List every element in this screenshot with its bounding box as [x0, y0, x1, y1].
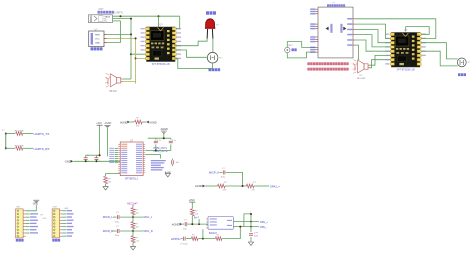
wire U4 notch loop — [406, 27, 430, 35]
wire — [198, 238, 215, 240]
svg-text:10k: 10k — [136, 227, 139, 229]
wire U3.r4 to U4 pad4 — [356, 35, 391, 47]
svg-text:CN?: CN? — [16, 206, 21, 208]
speaker SP3 — [457, 58, 466, 67]
svg-text:C? 104u: C? 104u — [180, 243, 188, 245]
junction — [242, 185, 244, 187]
svg-text:M?: M? — [219, 58, 223, 60]
wire — [132, 215, 134, 222]
svg-text:104: 104 — [176, 162, 180, 164]
resistor R7 — [131, 236, 135, 243]
wire mic bottom to U3 — [287, 52, 315, 58]
resistor R11 — [191, 237, 198, 241]
wire CN2 pin 5 — [26, 222, 30, 224]
svg-text:MIC2x#?: MIC2x#? — [127, 201, 138, 205]
wire — [250, 237, 252, 242]
CN2 label below — [16, 239, 18, 242]
comment text line 2 — [307, 68, 309, 71]
capacitor C11 — [184, 237, 186, 241]
resistor R9 — [246, 184, 254, 188]
net label CN3 pin 9 — [67, 235, 73, 236]
net label CN3 pin 6 — [67, 226, 74, 227]
cap C1 leads — [85, 155, 87, 161]
wire — [226, 172, 243, 186]
svg-text:MIC1_R: MIC1_R — [144, 230, 153, 233]
wire CN3 pin 5 — [62, 222, 66, 224]
wire — [105, 184, 107, 186]
svg-text:C?: C? — [184, 220, 187, 222]
capacitor C9 — [185, 222, 187, 226]
resistor R12 — [215, 237, 222, 241]
svg-text:AGND: AGND — [195, 184, 203, 188]
net label CN2 pin 4 — [30, 220, 38, 221]
svg-text:AGND: AGND — [149, 121, 156, 124]
svg-text:AGND: AGND — [161, 128, 168, 131]
ground AGND — [130, 247, 135, 250]
svg-text:XPT-BT5036-LJB: XPT-BT5036-LJB — [397, 70, 415, 72]
op-amp U6 body — [208, 217, 233, 230]
net label CN2 pin 8 — [30, 232, 38, 233]
net label CN3 pin 1 — [67, 210, 73, 211]
capacitor C8 — [223, 170, 225, 174]
wire U5 bottom left — [106, 174, 121, 176]
wires right of U5 — [145, 150, 166, 154]
speaker SP1 — [110, 74, 116, 87]
capacitor C10 — [249, 234, 253, 236]
wire CN3 pin 8 — [62, 232, 66, 234]
svg-text:MIC1_L: MIC1_L — [144, 216, 153, 219]
motor label — [209, 68, 212, 71]
U4 right pin labels — [422, 34, 426, 35]
label below U2 — [91, 47, 94, 50]
capacitor C1 — [84, 158, 88, 160]
wire — [132, 205, 134, 207]
svg-text:C?: C? — [222, 168, 225, 170]
wire U3.r2 to U4 pad2 — [356, 24, 391, 38]
wire — [198, 219, 200, 224]
svg-text:GND: GND — [65, 160, 71, 164]
wire U3.r1 loop over U4 — [356, 19, 436, 39]
wire U4 pad r3 to SP3 — [421, 43, 458, 59]
wire — [130, 121, 134, 123]
label: bluetooth serial module title — [98, 11, 100, 14]
wire to U1 right pad 1 — [174, 16, 180, 29]
svg-text:4.7k: 4.7k — [43, 218, 47, 220]
wire PEN — [107, 33, 132, 35]
wire CN3 pin 2 — [62, 213, 66, 215]
wire — [155, 146, 157, 150]
net label CN3 pin 2 — [67, 213, 74, 214]
wire CN3 pin 1 — [62, 210, 66, 212]
wire — [202, 229, 204, 238]
wire — [205, 185, 217, 187]
junction — [132, 216, 134, 218]
U1 right pin labels — [177, 28, 181, 29]
U4 pads right — [417, 33, 421, 36]
resistor R5 — [131, 208, 135, 215]
wire CN2 pin 3 — [26, 216, 30, 218]
ground AGND — [103, 187, 108, 190]
cap C5 leads — [172, 159, 174, 167]
wire — [148, 137, 171, 139]
resistor R4 — [104, 176, 108, 184]
wire U3.r3 to U4 pad3 — [356, 30, 391, 43]
wire — [113, 230, 117, 232]
svg-text:104u: 104u — [115, 221, 119, 223]
wire — [182, 238, 183, 240]
wire — [188, 223, 208, 225]
svg-text:2.2k: 2.2k — [136, 241, 140, 243]
wire — [6, 133, 15, 135]
svg-text:4.7u: 4.7u — [172, 140, 176, 142]
wire to U1 left pad7 — [131, 53, 148, 55]
cap leads — [156, 138, 171, 146]
svg-text:8R 0.5W: 8R 0.5W — [357, 78, 366, 80]
svg-text:+3V3: +3V3 — [64, 208, 70, 210]
wire — [166, 146, 171, 150]
wire — [222, 227, 240, 239]
svg-text:10k: 10k — [136, 126, 139, 128]
svg-text:R?: R? — [224, 182, 227, 184]
wire — [113, 20, 121, 22]
wire CN3 pin 3 — [62, 216, 66, 218]
svg-text:GND: GND — [33, 203, 39, 206]
wire U3.r6 to SP2 top — [356, 45, 359, 60]
U5 left outside labels + stubs — [115, 147, 118, 149]
svg-text:C?: C? — [116, 226, 119, 228]
wire — [23, 147, 33, 149]
svg-text:MK?: MK? — [288, 45, 293, 47]
CN3 label below — [52, 239, 54, 242]
wire CN2 pin 8 — [26, 232, 30, 234]
junction — [130, 53, 132, 55]
wire CN2 pin 6 — [26, 226, 30, 228]
wire to U1 left pad8 — [136, 57, 149, 59]
svg-text:R?: R? — [217, 24, 221, 26]
wire riser2 olive — [135, 38, 137, 81]
LED D1 body — [206, 19, 215, 28]
svg-text:C?: C? — [116, 212, 119, 214]
wire — [160, 155, 162, 159]
wire out+ — [233, 221, 251, 223]
svg-text:OPA_+: OPA_+ — [260, 221, 268, 224]
wire motor bottom to U1 pad8 — [174, 58, 213, 68]
wire GND — [107, 21, 121, 43]
wire SP2 + to U4 pad7 — [370, 55, 391, 65]
wire CN3 pin 4 — [62, 219, 66, 221]
wire — [99, 125, 101, 156]
LED legs — [207, 29, 213, 39]
svg-text:R?: R? — [253, 182, 256, 184]
svg-text:4.7u: 4.7u — [157, 140, 161, 142]
U3 inner arrows — [326, 27, 329, 31]
wire U3.r5 to U4 pad5 — [356, 40, 391, 51]
capacitor C7 — [117, 229, 119, 233]
svg-text:XPT8871LJ: XPT8871LJ — [125, 177, 139, 180]
resistor R8 — [218, 184, 226, 188]
U5 inner pin names — [121, 144, 127, 145]
svg-text:10k: 10k — [195, 214, 198, 216]
wire — [132, 229, 134, 236]
wire CN3 pin 7 — [62, 229, 66, 231]
junction — [132, 230, 134, 232]
wire CN2 pin 7 — [26, 229, 30, 231]
svg-text:MICP_A: MICP_A — [209, 171, 219, 175]
wire GND rail — [73, 160, 120, 162]
wire — [106, 128, 108, 156]
svg-text:R?: R? — [41, 215, 44, 217]
wire — [250, 214, 252, 232]
svg-text:UART0_RX: UART0_RX — [34, 147, 50, 151]
wire SP1 + — [122, 78, 131, 80]
wire CN2 pin 4 — [26, 219, 30, 221]
svg-text:R?: R? — [192, 234, 195, 236]
wire — [120, 216, 143, 218]
svg-text:AGND: AGND — [105, 122, 112, 125]
U4 inner pads column — [412, 36, 415, 38]
blue net text block right of U5 — [151, 160, 166, 161]
U1 pads left — [146, 27, 150, 30]
junction — [239, 226, 241, 228]
U1 inner chip — [151, 31, 165, 41]
wire — [182, 223, 184, 225]
wire — [220, 171, 223, 173]
svg-text:223: 223 — [254, 236, 258, 238]
svg-text:+3V0: +3V0 — [189, 199, 196, 202]
junction — [135, 57, 137, 59]
U5 pin stubs — [118, 143, 145, 145]
wire — [191, 202, 193, 209]
U3 right pin stubs — [353, 18, 356, 20]
motor M1 — [207, 52, 218, 63]
svg-text:104u: 104u — [115, 235, 119, 237]
U4 left pin labels — [385, 34, 389, 35]
wire loop — [244, 214, 251, 227]
wire — [120, 230, 143, 232]
IC module U1 body — [147, 27, 176, 62]
U3 title — [327, 4, 329, 6]
svg-text:R?: R? — [217, 234, 220, 236]
svg-text:CN?: CN? — [99, 8, 104, 11]
svg-text:YD?: YD? — [358, 75, 363, 77]
wire — [142, 121, 146, 123]
net label CN2 pin 6 — [30, 226, 38, 227]
wire left bus — [5, 134, 7, 149]
svg-text:R?: R? — [136, 238, 139, 240]
svg-text:VCC: VCC — [95, 38, 100, 40]
svg-text:OPA_-: OPA_- — [260, 226, 267, 229]
U1 left pin labels — [141, 28, 145, 29]
resistor R2 — [16, 146, 23, 150]
wire — [6, 147, 15, 149]
junction — [120, 15, 122, 17]
wire VCC (olive) — [107, 37, 136, 39]
svg-text:U?: U? — [404, 29, 408, 32]
wire riser1 — [130, 19, 132, 79]
wire motor left to U1 pad6 — [174, 50, 207, 57]
wire mic top to U3 — [287, 42, 315, 48]
wire U4 pad r5 to SP3 — [421, 51, 458, 66]
svg-text:U?: U? — [160, 24, 164, 27]
svg-text:1M: 1M — [108, 182, 111, 184]
IC module U4 body — [391, 33, 420, 68]
svg-text:47k: 47k — [252, 190, 255, 192]
U3 right pin labels — [347, 18, 352, 19]
wire — [132, 243, 134, 247]
wire SP1 - — [122, 82, 135, 84]
junction — [202, 238, 204, 240]
svg-text:U?: U? — [333, 2, 337, 4]
svg-text:UART0_TX: UART0_TX — [34, 132, 50, 136]
svg-text:R?: R? — [136, 210, 139, 212]
U3 left pin labels — [310, 8, 315, 9]
wire CN3 pin 9 — [62, 235, 66, 237]
svg-text:PEN: PEN — [95, 34, 100, 36]
svg-text:R?: R? — [195, 210, 198, 212]
svg-text:104: 104 — [183, 229, 187, 231]
svg-text:HPPOL?: HPPOL? — [171, 237, 182, 241]
U1 passives — [151, 43, 153, 45]
wire out- — [233, 226, 251, 228]
resistor R1 — [16, 132, 23, 136]
U1 inner pads column — [167, 30, 170, 32]
svg-text:S?: S? — [468, 62, 471, 64]
junction — [158, 15, 160, 17]
net label CN2 pin 5 — [30, 223, 37, 224]
net label CN3 pin 3 — [67, 216, 73, 217]
svg-text:C??: C?? — [254, 233, 259, 235]
svg-text:CN?: CN? — [53, 206, 58, 208]
capacitor C6 — [117, 215, 119, 219]
wire — [113, 18, 132, 20]
net label CN2 pin 2 — [30, 213, 38, 214]
wire — [254, 185, 269, 187]
U4 pads left — [390, 33, 394, 36]
wire to U1 top — [158, 16, 160, 27]
comment text line 1 — [307, 62, 309, 65]
svg-text:MICR_L: MICR_L — [103, 215, 113, 219]
svg-text:104u: 104u — [221, 177, 225, 179]
U3 left pin stubs — [316, 8, 319, 10]
cap C2 leads — [95, 155, 97, 161]
svg-text:R?: R? — [136, 118, 139, 120]
U4 passives — [396, 48, 398, 50]
wire CN3 pin 6 — [62, 226, 66, 228]
capacitor C4 — [169, 141, 173, 143]
U1 pads right — [172, 27, 176, 30]
junction — [130, 18, 132, 20]
svg-text:XPT-BT5036-LJB: XPT-BT5036-LJB — [152, 64, 170, 66]
svg-text:AGND: AGND — [120, 121, 127, 124]
wire — [225, 185, 246, 187]
wire SP2 - to U4 pad8 — [370, 60, 391, 68]
svg-text:3.3k: 3.3k — [223, 190, 227, 192]
SP3 label — [458, 73, 460, 76]
net label CN3 pin 4 — [67, 220, 74, 221]
resistor R3 — [135, 120, 143, 124]
svg-text:R?: R? — [108, 179, 111, 181]
wire net VBUS — [113, 15, 180, 17]
resistor R6 — [131, 222, 135, 229]
ground AGND — [248, 242, 253, 245]
svg-text:R?: R? — [136, 224, 139, 226]
U4 inner chip — [395, 36, 409, 46]
net label CN3 pin 7 — [67, 229, 73, 230]
svg-text:8R 1W: 8R 1W — [109, 91, 117, 93]
U4 notch — [402, 33, 408, 36]
net label CN3 pin 8 — [67, 232, 74, 233]
svg-text:AGND: AGND — [172, 223, 180, 227]
svg-text:MICR_R: MICR_R — [103, 229, 113, 233]
wire — [186, 238, 191, 240]
wire LED left leg to U1 pad5 — [174, 39, 207, 46]
wire gnd to CN2 pin1 — [26, 205, 37, 211]
junction — [135, 37, 137, 39]
net label CN2 pin 7 — [30, 229, 37, 230]
LED label — [206, 11, 209, 14]
svg-text:OPA1_+: OPA1_+ — [270, 184, 280, 188]
resistor R10 — [190, 209, 194, 216]
net label CN2 pin 3 — [30, 216, 37, 217]
wires to labels — [251, 222, 259, 227]
wire LED right leg to motor top — [212, 39, 214, 53]
wire — [113, 216, 117, 218]
wire — [191, 216, 193, 224]
svg-text:(UART): (UART) — [114, 11, 123, 15]
junction — [130, 33, 132, 35]
svg-text:GND: GND — [95, 42, 100, 44]
wire CN2 pin 2 — [26, 213, 30, 215]
wire — [163, 134, 165, 138]
net label CN3 pin 5 — [67, 223, 73, 224]
svg-text:1?: 1? — [2, 130, 5, 132]
speaker SP2 — [358, 60, 364, 73]
wire tie to +3V0 riser — [86, 154, 100, 156]
svg-text:10k: 10k — [136, 213, 139, 215]
capacitor C3 — [154, 141, 158, 143]
U1 notch — [158, 28, 164, 31]
capacitor C2 — [94, 158, 98, 160]
wire — [23, 133, 33, 135]
